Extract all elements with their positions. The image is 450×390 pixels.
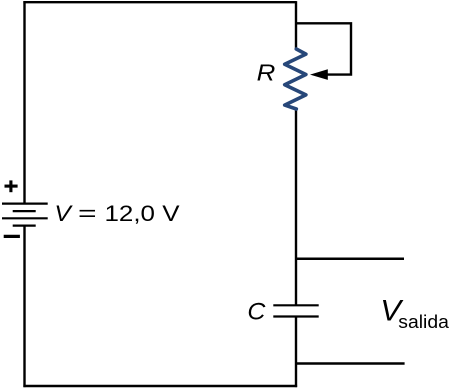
- wire right lower: [295, 317, 297, 388]
- wire right upper: [295, 1, 297, 49]
- resistor R (variable): [285, 49, 306, 109]
- battery plate short lower: [13, 225, 36, 227]
- plus sign: [5, 180, 18, 192]
- svg-text:salida: salida: [398, 311, 449, 332]
- wiper arrowhead: [310, 69, 328, 80]
- wire bottom: [23, 385, 297, 387]
- wire right middle: [295, 109, 297, 305]
- wire output upper: [296, 257, 404, 260]
- svg-text:R: R: [257, 60, 276, 86]
- svg-text:=: =: [78, 201, 97, 226]
- wire wiper branch: [296, 23, 351, 74]
- battery plate short upper: [13, 210, 36, 212]
- battery V: plate long top: [2, 203, 48, 205]
- capacitor C plate top: [273, 304, 318, 306]
- svg-text:V: V: [54, 201, 73, 226]
- capacitor C plate bottom: [273, 315, 318, 317]
- wire top: [23, 1, 296, 3]
- minus sign: [4, 235, 20, 238]
- wire left lower: [23, 226, 25, 388]
- svg-text:C: C: [247, 299, 266, 326]
- svg-text:12,0 V: 12,0 V: [105, 201, 180, 226]
- wire left upper: [23, 1, 25, 204]
- wire output lower: [296, 362, 405, 365]
- battery plate long bottom: [2, 217, 48, 219]
